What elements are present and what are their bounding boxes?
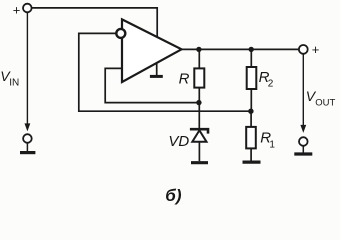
wire R bottom lead <box>198 88 200 103</box>
op-amp inverting input bubble <box>116 29 125 38</box>
wire output rail from op-amp to output terminal <box>182 48 299 50</box>
wire R top lead <box>198 49 200 68</box>
wire stub below bottom-right terminal <box>302 146 304 153</box>
svg-text:VD: VD <box>168 133 189 150</box>
svg-text:1: 1 <box>269 139 275 150</box>
op-amp ground bar <box>150 75 163 78</box>
R2 label <box>259 69 274 90</box>
wire R1 top lead <box>250 111 252 127</box>
wire V_IN drop from input terminal down <box>26 12 28 124</box>
svg-text:б): б) <box>165 186 182 205</box>
resistor R1 body <box>246 127 256 148</box>
wire stub below bottom-left terminal <box>26 143 28 151</box>
wire VD bottom lead <box>198 142 200 162</box>
terminal output minus (bottom right) <box>299 137 308 146</box>
ground below bottom-left terminal <box>20 151 35 154</box>
wire non-inverting input: triangle to left, down, right to R/VD node <box>105 68 199 102</box>
node dot output of op-amp / R top <box>196 47 201 52</box>
wire VD top lead <box>198 103 200 129</box>
terminal input + <box>23 4 32 13</box>
wire R2 top lead <box>250 49 252 67</box>
resistor R2 body <box>247 67 257 89</box>
svg-text:R: R <box>179 71 190 88</box>
terminal output + <box>299 45 308 54</box>
wire R2 bottom lead <box>250 89 252 111</box>
svg-text:+: + <box>13 3 21 18</box>
terminal input minus (bottom left) <box>23 134 32 143</box>
wire R1 bottom lead <box>250 148 252 160</box>
op-amp U1 triangle <box>122 19 182 82</box>
ground below R1 <box>243 161 261 164</box>
arrowhead on V_OUT wire <box>300 125 306 133</box>
svg-text:OUT: OUT <box>315 98 335 109</box>
node dot R2/R1 divider <box>248 109 253 114</box>
wire top rail from input terminal to op-amp supply <box>32 8 158 37</box>
arrowhead on V_IN wire <box>25 123 31 131</box>
wire V_OUT drop from output terminal down <box>302 54 304 126</box>
R1 label <box>260 130 275 151</box>
svg-text:+: + <box>312 42 320 57</box>
op-amp ground stub <box>156 63 158 76</box>
wire inverting feedback: bubble to left, down, right to R2/R1 node <box>79 33 251 111</box>
svg-text:IN: IN <box>9 78 19 89</box>
ground below bottom-right terminal <box>294 152 312 155</box>
node dot R bottom / VD cathode <box>196 100 201 105</box>
ground below VD <box>191 161 208 164</box>
V_OUT label <box>306 88 336 109</box>
zener diode VD triangle <box>192 130 206 141</box>
V_IN label <box>0 68 19 89</box>
node dot R2 top <box>249 47 254 52</box>
resistor R body <box>194 68 204 87</box>
zener diode VD cathode bar with tick <box>190 129 208 133</box>
svg-text:2: 2 <box>268 79 274 90</box>
